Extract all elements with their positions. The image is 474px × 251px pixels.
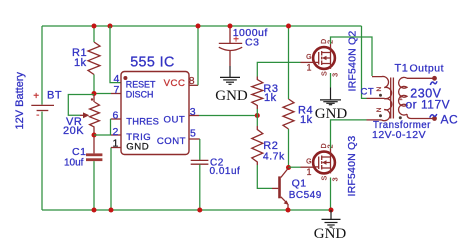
svg-text:GND: GND bbox=[314, 226, 347, 242]
wire VR wiper loop bbox=[68, 95, 94, 116]
junction OUT node bbox=[255, 113, 260, 118]
transistor Q2 MOSFET bbox=[306, 31, 358, 92]
svg-text:555 IC: 555 IC bbox=[130, 55, 175, 71]
transistor Q1 bbox=[278, 169, 322, 211]
wire GND pin1 down bbox=[110, 148, 112, 211]
pin stub THRES bbox=[111, 118, 121, 120]
resistor R3 bbox=[252, 77, 279, 110]
wire R1 top bbox=[93, 26, 95, 42]
resistor R1 bbox=[72, 42, 100, 75]
wire THRES pin6 bbox=[110, 119, 113, 135]
junction C1 at bottom rail bbox=[92, 208, 97, 213]
svg-text:5: 5 bbox=[190, 127, 196, 139]
tilde top output bbox=[430, 81, 437, 85]
wire battery positive lead bbox=[41, 26, 43, 105]
svg-text:G: G bbox=[306, 159, 312, 166]
svg-text:IRF540N Q3: IRF540N Q3 bbox=[346, 136, 358, 197]
svg-text:6: 6 bbox=[112, 109, 118, 121]
wire R1 bottom to node bbox=[93, 75, 95, 94]
svg-text:1k: 1k bbox=[264, 92, 277, 104]
junction Q1 collector / Q3 gate node bbox=[286, 165, 291, 170]
wire R3 bottom to OUT node bbox=[256, 109, 258, 116]
svg-text:1: 1 bbox=[399, 95, 403, 102]
svg-text:GND: GND bbox=[215, 88, 248, 104]
svg-text:7: 7 bbox=[113, 84, 119, 96]
pin stub DISCH bbox=[111, 93, 121, 95]
pin stub TRIG bbox=[111, 134, 121, 136]
svg-text:20K: 20K bbox=[63, 125, 84, 137]
wire +12V to transformer CT bbox=[362, 26, 367, 98]
ground under C3 bbox=[215, 66, 248, 104]
svg-text:N: N bbox=[376, 107, 383, 112]
svg-text:IRF540N Q2: IRF540N Q2 bbox=[346, 31, 358, 92]
svg-text:S: S bbox=[322, 175, 329, 180]
svg-text:or 117V: or 117V bbox=[406, 98, 451, 112]
wire R4 bottom to node bbox=[288, 129, 290, 168]
pin stub Q3 gate bbox=[301, 166, 314, 168]
pin stub CONT pin5 bbox=[189, 138, 200, 140]
svg-text:12V-0-12V: 12V-0-12V bbox=[372, 129, 426, 141]
svg-text:DISCH: DISCH bbox=[126, 89, 154, 99]
wire node to Q3 gate bbox=[289, 166, 301, 168]
wire C1 top bbox=[93, 137, 95, 153]
svg-text:G: G bbox=[306, 54, 312, 61]
potentiometer VR bbox=[63, 95, 99, 137]
resistor R2 bbox=[252, 126, 285, 165]
wire VCC pin8 to rail bbox=[197, 26, 199, 85]
svg-text:AC: AC bbox=[441, 113, 459, 127]
resistor R4 bbox=[283, 99, 313, 129]
wire OUT net bbox=[199, 115, 257, 117]
svg-text:CT: CT bbox=[361, 87, 375, 98]
ground under Q2 bbox=[315, 88, 348, 122]
battery BT bbox=[14, 72, 62, 130]
pin stub Q2 gate bbox=[301, 61, 314, 63]
svg-text:OUT: OUT bbox=[164, 114, 186, 125]
junction R1/VR/DISCH node bbox=[92, 91, 97, 96]
transistor Q3 MOSFET bbox=[306, 136, 358, 197]
capacitor C1 bbox=[64, 146, 102, 169]
svg-text:1k: 1k bbox=[74, 57, 87, 69]
wire R2 bottom to Q1 base bbox=[257, 165, 272, 188]
svg-text:0.01uf: 0.01uf bbox=[210, 166, 241, 177]
svg-text:BT: BT bbox=[47, 90, 62, 102]
junction pin1 at bottom rail bbox=[109, 208, 114, 213]
pin stub Q2 drain bbox=[330, 44, 332, 48]
wire Q2 drain bbox=[331, 37, 373, 76]
wire OUT node to R2 bbox=[256, 116, 258, 127]
svg-text:CONT: CONT bbox=[157, 136, 186, 147]
transformer T1 bbox=[361, 63, 459, 141]
wire node to TRIG pin2 bbox=[94, 134, 111, 136]
svg-text:GND: GND bbox=[126, 141, 149, 152]
svg-text:10uf: 10uf bbox=[64, 158, 84, 169]
svg-text:3: 3 bbox=[190, 106, 196, 118]
wire R3 top to Q2 gate bbox=[257, 62, 300, 76]
wire C1 bottom bbox=[93, 161, 95, 210]
wire Q2 source bbox=[330, 73, 332, 88]
junction top rail at R1 bbox=[92, 24, 97, 29]
junction C2 at bottom rail bbox=[197, 208, 202, 213]
svg-text:1: 1 bbox=[307, 167, 312, 177]
svg-text:12V Battery: 12V Battery bbox=[14, 72, 26, 130]
wire battery negative lead bbox=[41, 112, 43, 210]
tilde bottom output bbox=[430, 114, 437, 118]
svg-text:1k: 1k bbox=[300, 114, 313, 126]
pin stub Q3 drain bbox=[330, 149, 332, 153]
svg-text:VCC: VCC bbox=[164, 78, 186, 89]
svg-text:3: 3 bbox=[333, 73, 340, 77]
junction Q3 source at rail end bbox=[329, 208, 334, 213]
wire +12V top rail bbox=[42, 25, 362, 27]
svg-text:C3: C3 bbox=[245, 36, 259, 48]
wire node to DISCH pin7 bbox=[94, 93, 111, 95]
svg-text:1: 1 bbox=[112, 137, 118, 149]
capacitor C3 bbox=[219, 25, 268, 66]
svg-text:BC549: BC549 bbox=[289, 190, 322, 201]
junction top rail to pin4 bbox=[108, 24, 113, 29]
svg-text:Output: Output bbox=[410, 63, 445, 75]
svg-text:4.7k: 4.7k bbox=[263, 151, 285, 163]
svg-text:+: + bbox=[33, 91, 39, 102]
op 555 IC U1 bbox=[121, 55, 189, 155]
svg-text:T1: T1 bbox=[395, 63, 409, 75]
svg-text:-: - bbox=[36, 110, 40, 121]
svg-text:C1: C1 bbox=[72, 146, 86, 158]
wire C2 bottom bbox=[199, 165, 201, 211]
svg-text:S: S bbox=[322, 71, 329, 76]
junction Q1 emitter at bottom rail bbox=[286, 208, 291, 213]
junction R4 at top rail bbox=[286, 24, 291, 29]
pin stub GND pin1 bbox=[111, 147, 121, 149]
wire R4 top to rail bbox=[288, 26, 290, 99]
svg-text:Q1: Q1 bbox=[292, 177, 307, 189]
pin stub OUT pin3 bbox=[189, 115, 199, 117]
ground at bottom rail bbox=[314, 210, 347, 242]
svg-text:THRES: THRES bbox=[126, 116, 159, 127]
svg-text:RESET: RESET bbox=[126, 80, 156, 90]
svg-text:3: 3 bbox=[333, 177, 340, 181]
wire CONT to C2 bbox=[199, 139, 201, 160]
svg-text:1: 1 bbox=[307, 62, 312, 72]
junction VCC at top rail bbox=[196, 24, 201, 29]
junction C3 at top rail bbox=[228, 24, 233, 29]
wire RESET pin4 bbox=[110, 26, 121, 83]
pin stub Q1 base bbox=[272, 187, 278, 189]
svg-text:N: N bbox=[376, 87, 383, 92]
pin stub VCC pin8 bbox=[189, 84, 198, 86]
wire Q3 source bbox=[330, 178, 332, 211]
wire Q3 drain bbox=[331, 120, 367, 149]
junction VR bottom / TRIG node bbox=[92, 133, 97, 138]
capacitor C2 bbox=[191, 157, 241, 177]
wire ground bottom rail bbox=[42, 209, 331, 211]
